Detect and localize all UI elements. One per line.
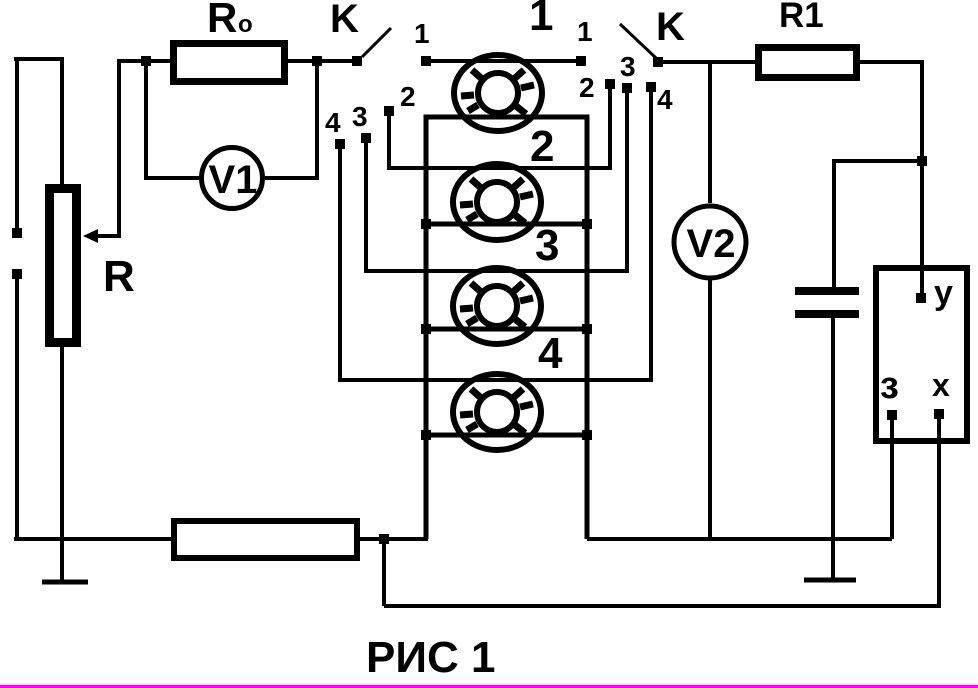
wire V2 top lead xyxy=(708,62,712,203)
wire bottom resistor right to bus xyxy=(360,537,428,541)
terminal dot 3 right xyxy=(622,83,632,93)
svg-text:2: 2 xyxy=(400,81,416,112)
ground bar left xyxy=(42,580,88,585)
coil L2 (toroid core) xyxy=(453,164,541,240)
wire left vertical upper xyxy=(15,57,19,229)
terminal dot y xyxy=(916,293,926,303)
svg-text:2: 2 xyxy=(579,72,595,103)
wire wiper to node xyxy=(92,61,146,236)
node junction dot at R0 left xyxy=(141,56,151,66)
resistor R0 body xyxy=(170,40,288,85)
terminal dot z xyxy=(887,410,897,420)
wire bottom-left horizontal xyxy=(14,537,171,541)
junction dots on ladder buses xyxy=(421,219,431,229)
switch K left pivot dot xyxy=(352,56,362,66)
svg-text:K: K xyxy=(330,0,359,41)
wire left vertical lower xyxy=(15,274,19,541)
wire V1 left lead xyxy=(146,61,199,178)
bottom resistor body xyxy=(171,518,360,561)
terminal dot x xyxy=(934,409,944,419)
svg-text:4: 4 xyxy=(657,84,673,115)
wire through coil 4 bottom xyxy=(426,433,587,438)
voltmeter V1 xyxy=(202,148,263,209)
svg-text:R: R xyxy=(207,0,237,41)
switch K left arm xyxy=(362,28,391,57)
wire through coil 3 bottom xyxy=(426,327,587,332)
svg-text:o: o xyxy=(238,11,253,38)
wire V1 right lead xyxy=(265,61,317,178)
wire rheostat top lead xyxy=(60,57,64,184)
wire top-left horizontal xyxy=(14,57,64,61)
terminal dot 4 right xyxy=(646,82,656,92)
wire node to R0 left xyxy=(146,59,170,63)
wire V2 bottom lead xyxy=(708,278,712,541)
svg-text:1: 1 xyxy=(577,16,593,47)
junction dot right corner xyxy=(917,156,927,166)
terminal pair left column xyxy=(12,228,22,238)
wire node to switch K left xyxy=(317,59,354,63)
voltmeter V2 xyxy=(674,206,746,278)
svg-text:x: x xyxy=(932,367,950,403)
svg-text:R1: R1 xyxy=(779,0,824,35)
svg-text:V1: V1 xyxy=(209,158,258,202)
svg-text:4: 4 xyxy=(325,107,341,138)
svg-text:3: 3 xyxy=(620,51,636,82)
coil L3 (toroid core) xyxy=(453,268,541,344)
wire z terminal down xyxy=(890,418,894,539)
wire terminal 2 loop through coil 2 xyxy=(389,87,610,168)
svg-text:1: 1 xyxy=(414,18,430,49)
wire capacitor bottom to ground xyxy=(831,318,835,580)
coil L1 (toroid core) xyxy=(454,55,542,131)
switch K right arm xyxy=(620,24,656,58)
wire rheostat bottom lead xyxy=(60,347,64,584)
svg-text:K: K xyxy=(656,5,685,49)
svg-text:R: R xyxy=(103,252,135,301)
terminal dot 1 right xyxy=(576,56,586,66)
wire terminal 3 loop through coil 3 xyxy=(366,91,627,271)
wire node to oscilloscope y input xyxy=(920,161,924,298)
node junction dot at R0 right xyxy=(312,56,322,66)
wire x terminal return xyxy=(384,417,939,606)
wire z below box xyxy=(890,416,894,539)
ground bar right xyxy=(804,578,856,583)
resistor R1 body xyxy=(755,44,860,81)
svg-text:2: 2 xyxy=(530,122,554,171)
wire R0 right to node xyxy=(288,59,317,63)
wire node down to x return xyxy=(382,539,386,606)
magenta separator line xyxy=(0,685,978,688)
wire ladder top through coil 1 bottom xyxy=(426,117,587,539)
svg-text:РИС 1: РИС 1 xyxy=(366,633,495,682)
wire R1 right to corner xyxy=(860,62,922,161)
terminal dot 2 right xyxy=(605,79,615,89)
svg-text:1: 1 xyxy=(529,0,553,40)
wire terminal 4 loop through coil 4 xyxy=(340,91,651,380)
wire switch K right to V2 node to R1 xyxy=(658,60,755,64)
wire x below box xyxy=(937,415,941,606)
wire node to capacitor top xyxy=(834,161,922,287)
svg-text:V2: V2 xyxy=(687,222,736,266)
switch K right pivot dot xyxy=(653,57,663,67)
wire bottom horizontal right xyxy=(587,537,892,541)
junction dot bottom xyxy=(379,534,389,544)
coil L4 (toroid core) xyxy=(453,374,541,450)
rheostat R body xyxy=(45,184,81,347)
svg-text:4: 4 xyxy=(538,329,563,378)
terminal dot 2 left xyxy=(384,106,394,116)
terminal dot 4 left xyxy=(335,139,345,149)
wire through coil 2 bottom xyxy=(426,222,587,227)
svg-text:y: y xyxy=(934,274,953,312)
svg-text:3: 3 xyxy=(352,101,368,132)
oscilloscope y input wire inside box xyxy=(920,265,924,298)
capacitor C plates xyxy=(795,287,859,295)
terminal dot 3 left xyxy=(361,133,371,143)
wire through coil 1 xyxy=(426,59,581,63)
svg-text:з: з xyxy=(880,365,899,407)
rheostat wiper arrow xyxy=(83,229,98,243)
svg-text:3: 3 xyxy=(535,221,559,270)
terminal dot 1 left xyxy=(421,56,431,66)
oscilloscope box xyxy=(876,268,967,441)
